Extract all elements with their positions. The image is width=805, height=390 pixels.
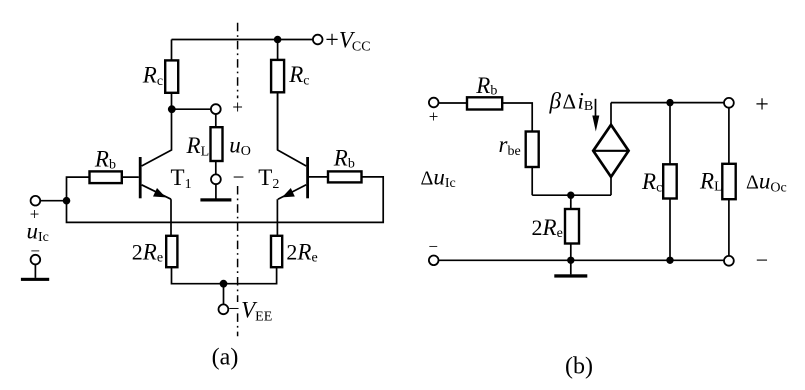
arrow current direction [592, 99, 599, 132]
label Rc (b) [641, 169, 662, 196]
label + (input) [30, 204, 40, 223]
label -VEE [228, 297, 272, 324]
label RL [186, 133, 210, 159]
svg-text:+: + [429, 107, 439, 126]
wire Rc top lead (b) [669, 103, 671, 165]
wire RL top lead (b) [728, 108, 730, 164]
ground (b) [554, 274, 587, 277]
resistor Rb (b) [467, 97, 502, 109]
wire base T1 lead [122, 176, 139, 178]
wire Rc-left bottom lead [171, 93, 173, 109]
label + (b input) [429, 107, 439, 126]
label rbe [499, 132, 521, 159]
resistor Rc (right) [271, 60, 284, 92]
label - (b output) [756, 248, 768, 273]
label 2Re (left) [132, 240, 163, 266]
terminal +VCC [313, 35, 323, 45]
terminal input + (b) [429, 98, 439, 108]
symmetry axis dash-dot line [237, 23, 239, 337]
terminal output + (b) [724, 98, 734, 108]
resistor rbe [526, 132, 539, 168]
wire 2Re-right bottom lead [224, 267, 277, 284]
wire ground stem (b) [570, 260, 572, 274]
svg-text:−: − [756, 248, 768, 273]
resistor Rb (right) [328, 171, 362, 182]
label Rc (right) [288, 62, 309, 89]
wire 2Re-left bottom lead [172, 267, 224, 284]
label uIc [27, 218, 49, 245]
label +VCC [325, 27, 370, 54]
wire diamond bottom lead [610, 177, 612, 195]
transistor T1 [139, 109, 172, 199]
node 2Re top (b) [567, 192, 574, 199]
wire emitter T2 down [276, 199, 278, 236]
label Rc (left) [142, 63, 163, 90]
label (a) [212, 344, 239, 370]
node ground junction (b) [567, 257, 574, 264]
transistor T2 [278, 92, 309, 199]
svg-text:(a): (a) [212, 344, 239, 370]
wire VEE lead [223, 284, 225, 305]
wire output ground stem [215, 184, 217, 199]
label + (output) [232, 98, 243, 119]
wire input ground stem [34, 264, 36, 278]
wire RL bottom lead (b) [728, 199, 730, 256]
terminal input - (b) [429, 255, 439, 265]
label T1 [171, 165, 192, 192]
resistor 2Re (left) [166, 236, 177, 267]
label + (b output) [755, 92, 769, 118]
resistor 2Re (b) [565, 209, 579, 244]
terminal uIc - [31, 255, 41, 265]
resistor Rc (left) [165, 60, 178, 92]
wire bottom rail (b) [439, 259, 725, 261]
resistor RL [211, 127, 223, 161]
node Rc bottom (b) [666, 257, 673, 264]
wire rbe bottom lead [531, 167, 533, 195]
terminal output - (b) [724, 256, 734, 266]
svg-text:+: + [755, 92, 769, 118]
resistor Rc (b) [663, 164, 677, 198]
wire emitter bus (b) [532, 194, 611, 196]
label T2 [258, 165, 279, 192]
ground (input) [21, 278, 49, 281]
wire Rc bottom lead (b) [669, 199, 671, 261]
svg-text:−: − [233, 165, 245, 189]
wire 2Re bottom lead (b) [570, 244, 572, 261]
terminal output - [211, 174, 221, 184]
label beta-delta-iB [549, 89, 594, 115]
wire Rb-left to input node [67, 177, 90, 201]
wire top supply rail [172, 39, 314, 41]
terminal -VEE [219, 304, 229, 314]
svg-text:(b): (b) [565, 353, 593, 379]
terminal output + [211, 104, 221, 114]
wire emitter T1 down [170, 199, 172, 236]
wire common base bus [67, 177, 384, 223]
label delta-uIc [421, 165, 456, 192]
wire input to Rb (b) [439, 102, 468, 104]
resistor Rb (left) [90, 171, 122, 183]
label 2Re (right) [286, 240, 317, 266]
label Rb (b) [475, 73, 497, 99]
resistor RL (b) [722, 164, 735, 199]
wire Rc-left top lead [171, 40, 173, 61]
wire Rc-right top lead [277, 40, 279, 60]
wire top rail (b) [611, 102, 724, 104]
label 2Re (b) [532, 215, 563, 241]
label RL (b) [699, 168, 723, 194]
wire Rb to rbe (b) [502, 103, 532, 132]
node input junction [63, 197, 71, 205]
label delta-uOc [746, 168, 787, 195]
node collector T1 [168, 105, 176, 113]
label - (input) [30, 242, 40, 261]
current source beta-delta-iB diamond [593, 125, 628, 177]
label Rb (right) [333, 146, 355, 172]
wire RL top lead [215, 114, 217, 127]
terminal uIc + [31, 196, 41, 206]
svg-text:+: + [232, 98, 243, 119]
wire 2Re top lead (b) [570, 195, 572, 209]
node VEE junction [220, 280, 228, 288]
wire RL bottom lead [215, 161, 217, 175]
label uO [229, 133, 251, 160]
wire input terminal lead [40, 200, 66, 202]
svg-text:−: − [428, 237, 438, 256]
wire Rc-right bottom lead [277, 92, 279, 150]
wire output tap [175, 108, 211, 110]
label - (output) [233, 165, 245, 189]
label Rb (left) [94, 147, 116, 173]
label - (b input) [428, 237, 438, 256]
node VCC junction [274, 36, 282, 44]
wire base T2 lead [309, 176, 328, 178]
wire diamond top lead [610, 103, 612, 125]
ground (output) [200, 198, 231, 201]
node Rc top (b) [666, 99, 673, 106]
label (b) [565, 353, 593, 379]
resistor 2Re (right) [271, 236, 282, 267]
